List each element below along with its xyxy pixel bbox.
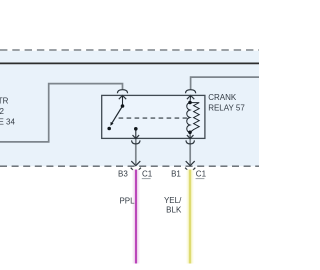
svg-text:RELAY 57: RELAY 57	[208, 103, 245, 112]
svg-text:CRANK: CRANK	[208, 93, 237, 102]
svg-text:C1: C1	[196, 170, 207, 179]
svg-text:C1: C1	[142, 170, 153, 179]
svg-text:PPL: PPL	[119, 197, 135, 206]
svg-text:E 34: E 34	[0, 118, 15, 127]
svg-text:B1: B1	[171, 170, 181, 179]
svg-text:B3: B3	[118, 170, 128, 179]
svg-text:YEL/: YEL/	[164, 196, 182, 205]
svg-text:TR: TR	[0, 96, 9, 105]
svg-text:BLK: BLK	[166, 205, 182, 214]
svg-text:2: 2	[0, 107, 4, 116]
